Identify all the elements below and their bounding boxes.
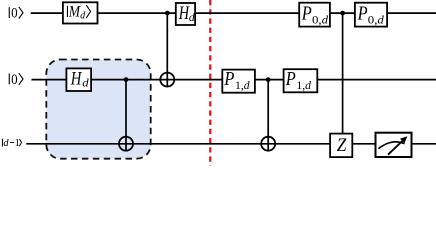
svg-text:d: d (82, 75, 89, 89)
control dot CZ (q0) (340, 11, 345, 16)
svg-text:1: 1 (15, 138, 20, 149)
svg-text:d: d (80, 10, 86, 21)
svg-text:0,d: 0,d (368, 13, 385, 27)
svg-text:Z: Z (337, 135, 347, 156)
control line CNOT1 (q0->q1) (166, 13, 168, 87)
qubit label |0> (q0) (9, 6, 23, 22)
qubit label |d-1> (q2) (2, 138, 22, 149)
gate H_d (q0) (176, 3, 196, 25)
svg-text:0: 0 (11, 72, 18, 88)
gate P_{0,d} #2 (q0) (355, 3, 387, 27)
svg-text:M: M (68, 3, 81, 20)
control dot CNOT1 (q0) (165, 11, 170, 16)
svg-text:1,d: 1,d (296, 78, 312, 92)
CNOT target on q1 (circle-plus) (160, 73, 174, 87)
barrier (red dashed vertical line) (209, 0, 211, 166)
svg-text:0: 0 (11, 6, 18, 22)
measurement meter (q2) (376, 133, 412, 157)
svg-text:0,d: 0,d (312, 13, 329, 27)
entangling block highlight (dashed rounded rect) (46, 60, 150, 159)
svg-text:d: d (189, 10, 196, 24)
gate P_{1,d} #2 (q1) (284, 69, 318, 92)
wire q1 (32, 79, 436, 81)
svg-text:1,d: 1,d (235, 78, 251, 92)
svg-text:P: P (357, 4, 368, 25)
control line CNOT3 (q1->q2) (267, 80, 269, 152)
wire q2 (26, 143, 436, 145)
control dot CNOT3 (q1) (266, 77, 271, 82)
svg-text:P: P (285, 69, 296, 90)
svg-text:P: P (224, 69, 235, 90)
svg-text:P: P (301, 4, 312, 25)
qubit label |0> (q1) (9, 72, 23, 88)
gate Z (q2) (330, 134, 352, 158)
wire q0 (31, 12, 436, 14)
svg-text:H: H (70, 68, 82, 89)
control line CZ (q0->Z) (342, 13, 344, 134)
gate H_d (q1) (66, 68, 91, 91)
gate |M_d> (q0) (63, 2, 98, 23)
control dot CNOT2 (q1) (124, 77, 129, 82)
CNOT target #2 on q2 (circle-plus) (261, 137, 275, 151)
gate P_{0,d} #1 (q0) (299, 3, 330, 27)
svg-text:d: d (3, 138, 9, 149)
control line CNOT2 (q1->q2) (125, 80, 127, 152)
CNOT target #1 on q2 (circle-plus) (119, 137, 133, 151)
gate P_{1,d} #1 (q1) (222, 69, 255, 93)
